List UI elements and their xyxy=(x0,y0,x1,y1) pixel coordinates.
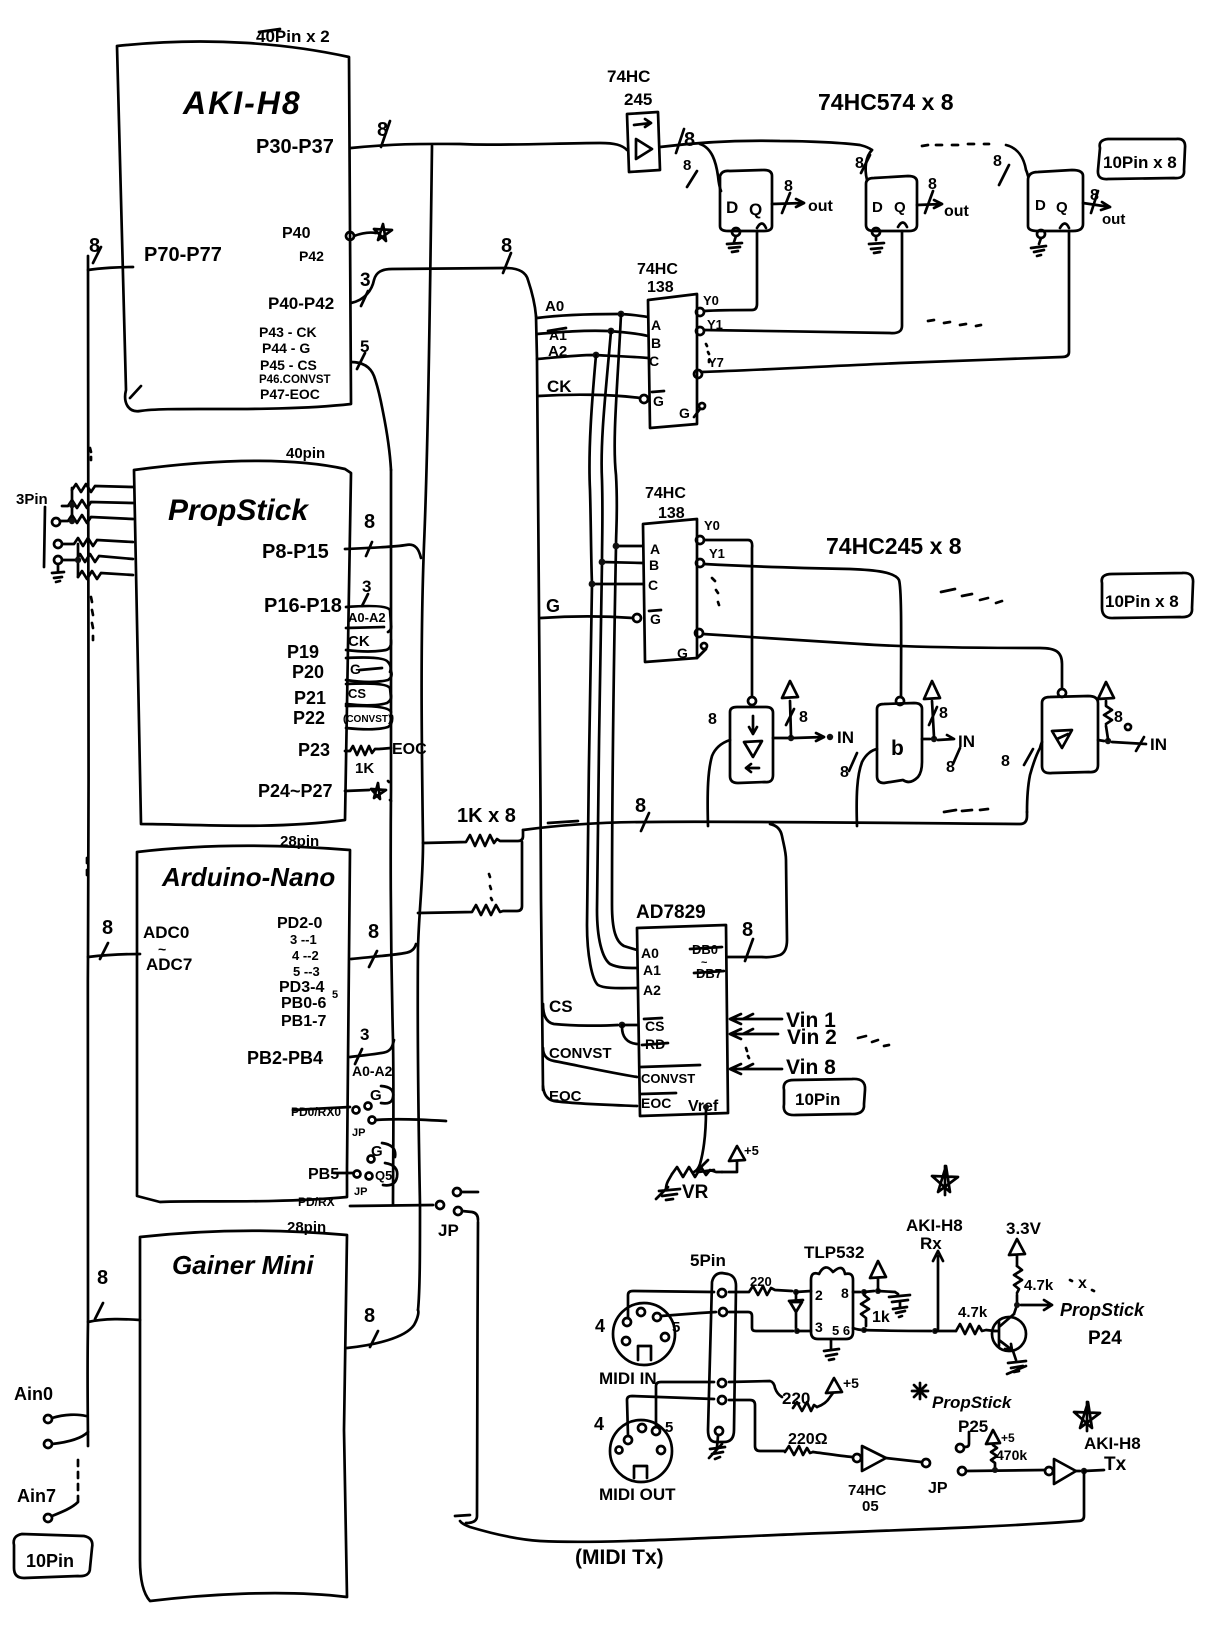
connector MIDI IN xyxy=(595,1303,680,1388)
wire PD/RX to JP xyxy=(298,1188,478,1240)
svg-text:JP: JP xyxy=(438,1221,459,1240)
resistor 1k pullup xyxy=(861,1295,890,1326)
wire AKI A0-A2 bundle (3) xyxy=(351,235,536,316)
pins Arduino PD0/RX0 jumper xyxy=(291,1086,446,1139)
jumper JP MIDI TX xyxy=(928,1467,1045,1497)
wire A1 vertical xyxy=(597,331,637,968)
svg-text:G: G xyxy=(650,611,661,627)
supply 3.3V xyxy=(1006,1219,1094,1308)
svg-text:Q: Q xyxy=(894,199,906,216)
wire in transceiver C xyxy=(1001,742,1042,812)
svg-text:Gainer Mini: Gainer Mini xyxy=(172,1250,314,1280)
svg-text:P21: P21 xyxy=(294,688,326,708)
wire shared IN bus xyxy=(523,795,1027,831)
wire CONVST from control bus xyxy=(543,1045,637,1077)
label 74HC 138 #1 xyxy=(637,261,678,296)
wire Arduino PB2-PB4 A0-A2 xyxy=(247,1025,394,1079)
wire vertical data bus V2 xyxy=(418,146,432,1310)
svg-text:P30-P37: P30-P37 xyxy=(256,136,334,158)
svg-text:Arduino-Nano: Arduino-Nano xyxy=(161,862,335,892)
svg-text:8: 8 xyxy=(1090,187,1099,204)
labels Y decoder #1 xyxy=(703,293,724,370)
svg-text:JP: JP xyxy=(352,1127,365,1139)
svg-text:1k: 1k xyxy=(872,1309,890,1326)
svg-text:A0-A2: A0-A2 xyxy=(352,1063,393,1079)
rail TLP pin8 Vcc xyxy=(853,1261,895,1295)
svg-text:(CONVST): (CONVST) xyxy=(343,714,391,725)
svg-text:Y7: Y7 xyxy=(708,355,724,370)
wire MIDI IN return to TLP pin3 xyxy=(729,1312,811,1334)
svg-text:out: out xyxy=(1102,211,1125,228)
wire C into decoder #2 xyxy=(589,581,643,588)
svg-text:Vin 8: Vin 8 xyxy=(786,1056,836,1079)
resistor 1K on P23 / EOC xyxy=(345,741,427,777)
svg-text:5: 5 xyxy=(332,989,338,1001)
register U-574 #3 xyxy=(1028,170,1083,231)
wire MIDI IN pin4 to header xyxy=(628,1291,714,1318)
svg-text:+5: +5 xyxy=(1001,1431,1015,1445)
wire B into decoder #2 xyxy=(599,559,643,566)
wire PropStick P24 xyxy=(1021,1300,1145,1349)
svg-text:P40: P40 xyxy=(282,225,311,242)
svg-text:out: out xyxy=(944,203,970,220)
transceiver 74HC245 B xyxy=(877,697,922,783)
svg-text:74HC245 x 8: 74HC245 x 8 xyxy=(826,533,962,559)
pin Y0 decoder #1 xyxy=(696,308,704,316)
board PropStick xyxy=(134,445,375,826)
svg-text:8: 8 xyxy=(684,129,695,151)
label AKI-H8 Tx xyxy=(1074,1402,1141,1453)
dots repeated registers xyxy=(922,144,989,146)
svg-text:CONVST: CONVST xyxy=(641,1071,695,1086)
svg-text:1K: 1K xyxy=(355,760,374,777)
wire G into decoder #2 xyxy=(541,596,633,618)
svg-text:+5: +5 xyxy=(843,1375,859,1391)
svg-text:P45 - CS: P45 - CS xyxy=(260,357,317,373)
wire Y0 to register #1 xyxy=(704,231,757,311)
pin G decoder #2 xyxy=(633,614,641,622)
svg-text:P8-P15: P8-P15 xyxy=(262,541,329,563)
svg-text:CS: CS xyxy=(348,686,366,701)
svg-text:8: 8 xyxy=(928,176,937,193)
svg-text:ADC0: ADC0 xyxy=(143,923,189,942)
svg-text:CS: CS xyxy=(549,997,573,1016)
svg-text:1K x 8: 1K x 8 xyxy=(457,805,516,827)
svg-text:8: 8 xyxy=(97,1267,108,1289)
svg-text:P47-EOC: P47-EOC xyxy=(260,386,320,402)
wire buffer output bus xyxy=(660,129,872,153)
register U-574 #1 xyxy=(720,170,772,231)
pin Y7 decoder #2 xyxy=(695,629,703,637)
pin Y0 decoder #2 xyxy=(696,536,704,544)
pin tab CS PropStick xyxy=(346,684,391,706)
resistor 470k pullup xyxy=(986,1430,1027,1473)
svg-text:74HC: 74HC xyxy=(848,1482,887,1499)
svg-text:D: D xyxy=(1035,197,1046,214)
svg-text:P46.CONVST: P46.CONVST xyxy=(259,374,331,386)
svg-text:ADC7: ADC7 xyxy=(146,955,192,974)
svg-text:Y0: Y0 xyxy=(703,293,719,308)
svg-text:74HC: 74HC xyxy=(637,261,678,278)
svg-text:P44 - G: P44 - G xyxy=(262,340,310,356)
wire out register #1 xyxy=(772,178,834,215)
wire EOC from control bus xyxy=(543,1086,637,1106)
optocoupler TLP532 xyxy=(804,1243,864,1339)
svg-text:220: 220 xyxy=(750,1274,772,1289)
wire branch to register 3 xyxy=(993,145,1028,185)
svg-text:PD3-4: PD3-4 xyxy=(279,979,324,996)
svg-text:MIDI IN: MIDI IN xyxy=(599,1369,657,1388)
svg-text:PB1-7: PB1-7 xyxy=(281,1013,326,1030)
connector label 10Pin (AD7829) xyxy=(784,1079,865,1115)
svg-text:P19: P19 xyxy=(287,642,319,662)
svg-text:P24~P27: P24~P27 xyxy=(258,781,333,801)
svg-text:IN: IN xyxy=(1150,735,1167,754)
diode protection MIDI IN xyxy=(789,1294,803,1328)
svg-text:8: 8 xyxy=(364,511,375,533)
wire in transceiver B xyxy=(840,749,877,826)
svg-text:TLP532: TLP532 xyxy=(804,1243,864,1262)
pin G2 decoder #2 xyxy=(677,643,707,661)
svg-text:4: 4 xyxy=(594,1414,604,1434)
wire MIDI IN pin5 to header xyxy=(661,1312,716,1316)
svg-text:Ain0: Ain0 xyxy=(14,1384,53,1404)
wire out register #3 xyxy=(1083,187,1125,228)
svg-text:IN: IN xyxy=(837,728,854,747)
pin P40 with jumper star xyxy=(346,224,392,241)
svg-text:8: 8 xyxy=(1001,753,1010,770)
svg-text:G: G xyxy=(370,1087,382,1104)
svg-text:A0-A2: A0-A2 xyxy=(348,610,386,625)
svg-text:Tx: Tx xyxy=(1104,1454,1127,1475)
svg-text:A2: A2 xyxy=(643,982,661,998)
labels DB0-DB7 xyxy=(690,942,724,981)
svg-text:AKI-H8: AKI-H8 xyxy=(906,1216,963,1235)
svg-text:PD2-0: PD2-0 xyxy=(277,915,322,932)
svg-text:PB5: PB5 xyxy=(308,1166,339,1183)
svg-text:Vin 2: Vin 2 xyxy=(787,1026,837,1049)
svg-text:28pin: 28pin xyxy=(280,833,319,850)
resistor 220 pullup MIDI OUT xyxy=(729,1375,859,1411)
svg-text:8: 8 xyxy=(368,921,379,943)
svg-text:4 --2: 4 --2 xyxy=(292,948,319,963)
dotted left bus xyxy=(86,858,89,875)
wire AKI-H8 Rx xyxy=(906,1216,963,1329)
svg-text:4: 4 xyxy=(595,1316,605,1336)
wire MIDI TX return loop xyxy=(455,1222,1084,1542)
pin G2 decoder #1 xyxy=(679,403,705,421)
svg-text:3: 3 xyxy=(815,1319,823,1335)
svg-text:5 --3: 5 --3 xyxy=(293,964,320,979)
pin tab G PropStick xyxy=(346,658,392,683)
svg-text:G: G xyxy=(679,405,690,421)
svg-text:CK: CK xyxy=(547,377,572,396)
svg-text:10Pin: 10Pin xyxy=(795,1090,840,1109)
wire out register #2 xyxy=(917,176,970,220)
svg-text:G: G xyxy=(546,596,560,616)
svg-text:PB2-PB4: PB2-PB4 xyxy=(247,1048,323,1068)
svg-text:8: 8 xyxy=(799,709,808,726)
svg-text:AKI-H8: AKI-H8 xyxy=(182,85,302,121)
svg-text:P40-P42: P40-P42 xyxy=(268,294,334,313)
connector 3Pin xyxy=(16,491,64,582)
wire bus branch to AD7829 xyxy=(728,824,787,961)
svg-text:8: 8 xyxy=(784,178,793,195)
wire TLP output xyxy=(853,1327,956,1334)
svg-text:P16-P18: P16-P18 xyxy=(264,595,342,617)
svg-text:8: 8 xyxy=(683,157,691,174)
pins Ain0 Ain7 xyxy=(14,1384,88,1522)
label 74HC 138 #2 xyxy=(645,485,686,522)
svg-text:3 --1: 3 --1 xyxy=(290,932,317,947)
wire MIDI OUT pin4 to header xyxy=(627,1396,714,1436)
transceiver 74HC245 A xyxy=(708,697,773,783)
svg-text:C: C xyxy=(649,353,659,369)
svg-text:PB0-6: PB0-6 xyxy=(281,995,326,1012)
svg-text:B: B xyxy=(651,335,661,351)
svg-text:40pin: 40pin xyxy=(286,445,325,462)
ADC AD7829 xyxy=(636,902,728,1116)
svg-text:Y1: Y1 xyxy=(707,317,723,332)
svg-text:C: C xyxy=(648,577,658,593)
svg-text:PropStick: PropStick xyxy=(932,1393,1013,1412)
decoder 74HC138 #2 xyxy=(643,519,697,662)
svg-text:AKI-H8: AKI-H8 xyxy=(1084,1434,1141,1453)
svg-text:out: out xyxy=(808,198,834,215)
ground register #3 xyxy=(1031,238,1046,256)
resistor 220 MIDI IN xyxy=(729,1274,811,1295)
pins Arduino PB5 jumper xyxy=(308,1143,397,1198)
wire AKI analog 8 xyxy=(88,235,133,270)
svg-text:8: 8 xyxy=(708,711,717,728)
svg-text:JP: JP xyxy=(354,1186,367,1198)
svg-text:74HC: 74HC xyxy=(645,485,686,502)
svg-text:Q5: Q5 xyxy=(375,1168,392,1183)
wires Vin arrows xyxy=(730,1009,889,1079)
wire Y1 to register #2 xyxy=(704,231,902,333)
wire Y7 to transceiver C xyxy=(703,634,1062,688)
pin Y7 decoder #1 xyxy=(694,370,702,378)
svg-text:5: 5 xyxy=(665,1419,673,1436)
svg-text:5Pin: 5Pin xyxy=(690,1251,726,1270)
wire Y7 to register #3 xyxy=(701,231,1069,372)
svg-text:8: 8 xyxy=(841,1285,849,1301)
svg-text:B: B xyxy=(649,557,659,573)
svg-text:JP: JP xyxy=(928,1480,948,1497)
pin tab CONVST PropStick xyxy=(343,706,392,729)
inverter 74HC05 #1 xyxy=(848,1446,930,1515)
wire out transceiver C xyxy=(1098,682,1167,754)
decoder 74HC138 #1 xyxy=(648,294,697,428)
potentiometer VR xyxy=(656,1110,759,1203)
svg-text:A1: A1 xyxy=(643,962,661,978)
svg-text:A: A xyxy=(651,317,661,333)
svg-text:8: 8 xyxy=(635,795,646,817)
svg-text:4.7k: 4.7k xyxy=(958,1304,988,1321)
svg-text:8: 8 xyxy=(377,119,388,141)
clock pin register #2 xyxy=(872,228,880,236)
svg-text:Y0: Y0 xyxy=(704,518,720,533)
svg-text:05: 05 xyxy=(862,1498,879,1515)
svg-text:3Pin: 3Pin xyxy=(16,491,48,508)
wire A into decoder #2 xyxy=(613,543,643,550)
wire Arduino analog 8 xyxy=(88,917,140,959)
wire CK into decoder #1 G xyxy=(538,377,640,398)
ground 5Pin header xyxy=(709,1436,725,1459)
svg-text:PD/RX: PD/RX xyxy=(298,1195,335,1209)
svg-text:A0: A0 xyxy=(641,945,659,961)
resistor array 1K x 8 xyxy=(418,805,523,915)
connector label 10pin x8 (top) xyxy=(1098,139,1185,179)
svg-text:3: 3 xyxy=(360,270,371,291)
svg-text:Ain7: Ain7 xyxy=(17,1486,56,1506)
svg-text:10Pin: 10Pin xyxy=(26,1551,74,1571)
wire A1 into decoder #1 xyxy=(537,327,648,343)
svg-text:PropStick: PropStick xyxy=(168,494,309,527)
clock pin register #1 xyxy=(732,228,740,236)
svg-text:EOC: EOC xyxy=(641,1095,671,1111)
svg-text:(MIDI Tx): (MIDI Tx) xyxy=(575,1546,664,1569)
board AKI-H8 xyxy=(117,27,351,411)
svg-text:4.7k: 4.7k xyxy=(1024,1277,1054,1294)
svg-text:D: D xyxy=(872,199,883,216)
wire vertical control bus V1 xyxy=(391,470,394,1205)
dots repeated Y wires xyxy=(928,320,981,326)
star marker PropStick P25 xyxy=(912,1383,1013,1452)
wire out transceiver A xyxy=(773,681,854,747)
svg-text:b: b xyxy=(891,737,904,760)
svg-text:G: G xyxy=(677,645,688,661)
svg-text:8: 8 xyxy=(102,917,113,939)
pin tab A0-A2 / CK PropStick xyxy=(346,594,391,652)
ground TLP532 xyxy=(824,1339,839,1360)
svg-text:A: A xyxy=(650,541,660,557)
svg-text:VR: VR xyxy=(682,1182,709,1203)
pin Y1 decoder #2 xyxy=(696,559,704,567)
wire P8-P15 to data bus xyxy=(345,542,421,558)
wire P30-P37 bus to 74HC245 buffer xyxy=(351,119,627,150)
svg-text:+5: +5 xyxy=(744,1143,759,1158)
wire CS from control bus xyxy=(543,997,637,1044)
wire A0 vertical xyxy=(612,314,637,950)
svg-text:P24: P24 xyxy=(1088,1328,1122,1349)
svg-text:5: 5 xyxy=(672,1319,680,1336)
svg-text:Rx: Rx xyxy=(920,1234,942,1253)
svg-text:2: 2 xyxy=(815,1287,823,1303)
pin G decoder #1 xyxy=(640,395,648,403)
svg-text:245: 245 xyxy=(624,90,652,109)
connector label 10pin x8 (mid) xyxy=(1102,573,1193,618)
svg-text:5 6: 5 6 xyxy=(832,1323,850,1338)
svg-text:Q: Q xyxy=(1056,199,1068,216)
transistor Q1 xyxy=(992,1308,1026,1374)
svg-text:A0: A0 xyxy=(545,298,564,315)
svg-text:10Pin x 8: 10Pin x 8 xyxy=(1105,592,1179,611)
svg-text:8: 8 xyxy=(840,764,849,781)
svg-text:10Pin x 8: 10Pin x 8 xyxy=(1103,153,1177,172)
svg-text:8: 8 xyxy=(1114,709,1123,726)
wire Y0 to transceiver A xyxy=(704,540,752,696)
svg-text:8: 8 xyxy=(364,1305,375,1327)
wire P24-P27 star xyxy=(345,781,391,801)
svg-text:3.3V: 3.3V xyxy=(1006,1219,1042,1238)
star marker Rx xyxy=(932,1166,958,1195)
ground register #1 xyxy=(727,236,742,252)
svg-text:P70-P77: P70-P77 xyxy=(144,244,222,266)
buffer 74HC245 (top) xyxy=(607,67,660,172)
wire branch to register 2 xyxy=(855,150,872,180)
wire A2 into decoder #1 xyxy=(537,343,648,360)
pin Y1 decoder #1 xyxy=(696,327,704,335)
svg-text:G: G xyxy=(653,393,664,409)
connector MIDI OUT xyxy=(594,1414,676,1504)
svg-text:D: D xyxy=(726,198,738,217)
labels Y decoder #2 xyxy=(704,518,725,605)
wire in transceiver A xyxy=(708,740,730,826)
svg-text:Q: Q xyxy=(749,200,762,219)
svg-text:Y1: Y1 xyxy=(709,546,725,561)
ground register #2 xyxy=(869,236,884,253)
wire branch to register 1 xyxy=(683,144,721,191)
wire A2 vertical xyxy=(587,355,637,988)
resistor 220ohm MIDI OUT drive xyxy=(729,1400,852,1457)
svg-text:8: 8 xyxy=(993,153,1002,170)
svg-text:P20: P20 xyxy=(292,662,324,682)
resistor 4.7k base xyxy=(956,1304,995,1334)
wire Arduino data 8 to bus xyxy=(351,921,416,967)
svg-text:74HC574 x 8: 74HC574 x 8 xyxy=(818,89,954,115)
svg-text:CS: CS xyxy=(645,1018,664,1034)
board Arduino-Nano xyxy=(137,833,350,1202)
wire AKI control bundle (5) into vertical bus xyxy=(351,337,391,470)
connector label 10Pin (bottom left) xyxy=(14,1534,93,1578)
svg-text:220Ω: 220Ω xyxy=(788,1431,828,1448)
svg-text:x: x xyxy=(1078,1275,1087,1292)
svg-text:138: 138 xyxy=(647,279,674,296)
svg-text:P25: P25 xyxy=(958,1417,988,1436)
wire Gainer data 8 to bus xyxy=(347,1305,418,1348)
svg-text:CONVST: CONVST xyxy=(549,1045,612,1062)
register U-574 #2 xyxy=(866,176,917,231)
svg-text:AD7829: AD7829 xyxy=(636,902,706,923)
svg-text:28pin: 28pin xyxy=(287,1219,326,1236)
connector 5Pin header xyxy=(690,1251,736,1442)
board Gainer-Mini xyxy=(140,1219,347,1601)
svg-text:470k: 470k xyxy=(996,1447,1027,1463)
svg-text:3: 3 xyxy=(362,577,371,596)
svg-text:P42: P42 xyxy=(299,248,324,264)
wire A0 into decoder #1 xyxy=(537,298,648,318)
wire Y1 to transceiver B xyxy=(704,564,901,697)
svg-text:8: 8 xyxy=(855,155,864,172)
svg-text:8: 8 xyxy=(939,705,948,722)
dotted continuation 3Pin xyxy=(90,448,93,640)
svg-text:P23: P23 xyxy=(298,740,330,760)
wire MIDI OUT pin5 to header xyxy=(656,1382,714,1427)
wire left analog bus xyxy=(87,256,88,1446)
svg-text:P43 - CK: P43 - CK xyxy=(259,324,317,340)
dashes repeated transceivers xyxy=(941,589,1002,603)
inverter 74HC05 #2 xyxy=(1045,1454,1127,1484)
svg-text:3: 3 xyxy=(360,1025,369,1044)
svg-text:CK: CK xyxy=(348,633,370,650)
svg-text:P22: P22 xyxy=(293,708,325,728)
capacitor TLP xyxy=(889,1292,910,1317)
svg-text:EOC: EOC xyxy=(392,741,427,758)
wire vertical address bus V4 xyxy=(536,316,543,1090)
transceiver 74HC245 C xyxy=(1042,689,1098,773)
svg-text:PropStick: PropStick xyxy=(1060,1300,1145,1320)
